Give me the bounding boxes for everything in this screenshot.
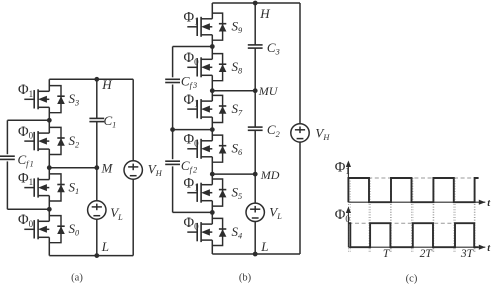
wire left branch upper (Cf3 branch): [172, 47, 174, 78]
wire MU link: [212, 90, 255, 92]
transistor S3 (switch S3, gate Φ1): [24, 79, 49, 120]
wire MD link: [212, 173, 255, 175]
waveform phi0: [348, 223, 478, 247]
node S1-S0 junction: [47, 207, 52, 212]
body diode of S0: [49, 216, 65, 243]
capacitor Cf3: [165, 78, 180, 80]
node S7-S6 junction: [210, 127, 215, 132]
svg-text:MU: MU: [258, 84, 279, 98]
wire right rail (b) VH to L: [299, 142, 301, 254]
wire middle rail top (H to C1): [96, 79, 98, 118]
node S6-S5 junction: [210, 172, 215, 177]
body diode of S8: [212, 54, 226, 81]
body diode of S3: [49, 86, 65, 113]
wire mid rail (b) VL to L: [254, 222, 256, 254]
node L on rail: [94, 253, 99, 258]
body diode of S2: [49, 127, 65, 154]
transistor S5 (switch S5, gate Φ1): [187, 174, 212, 212]
wire mid rail (b) C3 to MU to C2: [254, 48, 256, 127]
capacitor C1: [89, 117, 104, 119]
voltage source VL (a): [88, 201, 106, 219]
voltage source VH (b): [291, 124, 309, 142]
svg-text:3T: 3T: [460, 248, 475, 260]
capacitor Cf1: [0, 155, 15, 157]
waveform phi1: [348, 178, 478, 202]
wire left branch lower (Cf2 branch): [172, 130, 174, 160]
wire M link: [49, 167, 97, 169]
node MU on rail: [253, 88, 258, 93]
axes phi1 plot: [348, 201, 485, 203]
body diode of S7: [212, 95, 226, 122]
dashed high level line phi1: [348, 177, 475, 179]
dotted edge marker lines: [349, 178, 475, 252]
wire middle rail bottom (VL to L): [96, 219, 98, 255]
wire mid rail (b) H to C3: [254, 3, 256, 45]
wire left branch to node S1/S0: [7, 208, 49, 210]
node M on rail: [94, 165, 99, 170]
wire middle rail (C1 to M to VL): [96, 122, 98, 201]
node M left: [47, 165, 52, 170]
body diode of S4: [212, 218, 226, 245]
dashed high level line phi0: [348, 222, 475, 224]
svg-text:H: H: [101, 77, 112, 92]
wire node S9/S8 to left branch: [173, 46, 213, 48]
svg-text:H: H: [259, 6, 270, 21]
node S8-S7 junction: [210, 88, 215, 93]
svg-text:L: L: [101, 239, 109, 254]
voltage source VL (b): [246, 203, 264, 221]
svg-text:(c): (c): [406, 273, 418, 284]
wire mid rail (b) C2 to MD to VL: [254, 130, 256, 203]
svg-text:(b): (b): [239, 273, 252, 284]
voltage source VH (a): [124, 161, 142, 179]
axes phi0 plot: [348, 246, 485, 248]
capacitor C2: [248, 126, 263, 128]
transistor S0 (switch S0, gate Φ0): [24, 209, 49, 255]
wire right rail bottom (VH to L): [132, 179, 134, 255]
node S3-S2 junction: [47, 118, 52, 123]
svg-text:MD: MD: [260, 168, 280, 182]
svg-text:M: M: [101, 160, 114, 175]
body diode of S9: [212, 13, 226, 40]
node L on rail (b): [253, 252, 258, 257]
capacitor C3: [248, 44, 263, 46]
transistor S2 (switch S2, gate Φ0): [24, 120, 49, 167]
transistor S6 (switch S6, gate Φ0): [187, 130, 212, 175]
node MD on rail: [253, 172, 258, 177]
transistor S8 (switch S8, gate Φ0): [187, 47, 212, 91]
wire node S3/S2 to left branch: [7, 119, 49, 121]
wire H rail (a): [49, 78, 133, 80]
transistor S4 (switch S4, gate Φ0): [187, 212, 212, 254]
svg-text:L: L: [260, 239, 268, 254]
wire right rail (b) H to VH: [299, 3, 301, 124]
wire node S7/S6 link: [173, 129, 213, 131]
node H on rail (b): [253, 1, 258, 6]
wire H rail (b): [212, 2, 300, 4]
body diode of S6: [212, 135, 226, 162]
wire left branch to node S5/S4: [173, 211, 213, 213]
wire right rail top (H to VH): [132, 79, 134, 160]
node S5-S4 junction: [210, 210, 215, 215]
wire L rail (a): [49, 255, 133, 257]
transistor S1 (switch S1, gate Φ1): [24, 168, 49, 210]
wire L rail (b): [212, 253, 300, 255]
capacitor Cf2: [165, 160, 180, 162]
node H on rail: [94, 77, 99, 82]
svg-text:(a): (a): [71, 273, 83, 284]
transistor S9 (switch S9, gate Φ1): [187, 3, 212, 47]
node S9-S8 junction: [210, 44, 215, 49]
wire left branch down (Cf1 branch): [6, 120, 8, 154]
body diode of S5: [212, 179, 226, 206]
body diode of S1: [49, 174, 65, 201]
svg-text:2T: 2T: [420, 248, 434, 260]
node on left branch: [170, 127, 175, 132]
transistor S7 (switch S7, gate Φ1): [187, 91, 212, 130]
